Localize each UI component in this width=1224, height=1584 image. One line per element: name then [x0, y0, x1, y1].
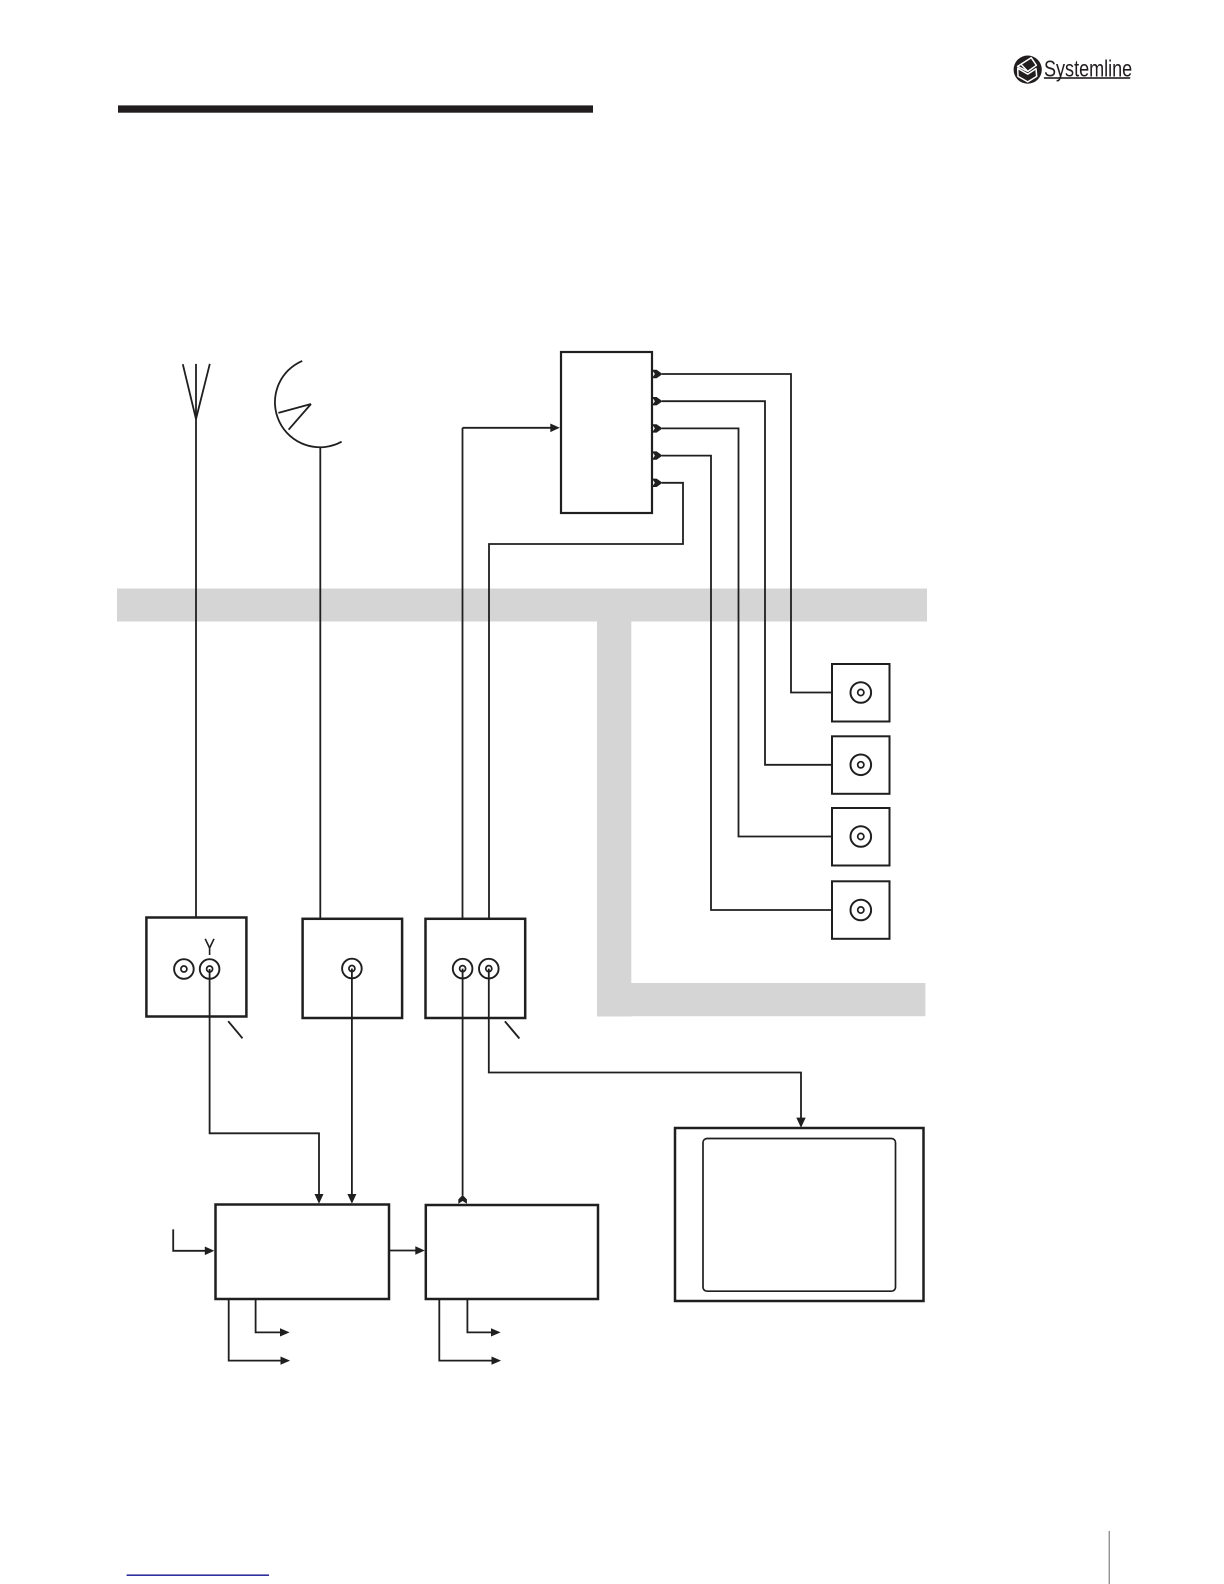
arrowhead B output lower — [492, 1357, 502, 1365]
wire plate 3 right socket to television — [489, 969, 801, 1118]
gray wall bar vertical — [597, 622, 631, 1017]
wire receiver A to receiver B — [389, 1250, 416, 1252]
tv outlet 2 — [832, 736, 890, 794]
wire receiver A output upper — [256, 1299, 281, 1332]
tv outlet 1 — [832, 664, 890, 722]
wall plate 2 — [303, 919, 403, 1018]
wire plate 3 left socket to receiver B — [462, 969, 464, 1196]
aerial glyph in wall plate 1 — [205, 939, 214, 955]
arrowhead into receiver A left — [315, 1194, 324, 1204]
wall plate 1 — [146, 918, 246, 1017]
footer page separator — [1109, 1531, 1110, 1584]
arrowhead into amplifier — [550, 424, 560, 433]
diagonal tick plate 1 — [228, 1021, 242, 1038]
wire plate 1 to receiver A — [210, 969, 319, 1195]
diagonal tick plate 3 — [505, 1021, 520, 1038]
wire return input to amplifier — [463, 428, 551, 919]
wire port 3 to outlet 3 — [662, 428, 832, 836]
wire port 2 to outlet 2 — [662, 401, 832, 765]
arrowhead A output upper — [280, 1328, 290, 1336]
wire receiver B output lower — [439, 1299, 491, 1361]
wire receiver B output upper — [467, 1299, 491, 1332]
arrowhead B output upper — [491, 1328, 501, 1336]
port 3 arrow — [652, 424, 663, 432]
aerial antenna — [183, 364, 210, 419]
arrowhead A output lower — [281, 1357, 291, 1365]
wire dish downlead — [319, 447, 321, 919]
wire input into receiver A — [173, 1229, 205, 1250]
arrowhead into television — [796, 1118, 805, 1128]
port 2 arrow — [652, 397, 663, 405]
arrowhead up at receiver B — [458, 1195, 467, 1204]
wire receiver A output lower — [229, 1299, 281, 1361]
tv outlet 3 — [832, 808, 890, 866]
Systemline logo mark — [1014, 56, 1042, 84]
television — [675, 1128, 924, 1301]
arrowhead input receiver A — [205, 1247, 215, 1256]
tv outlet 4 — [832, 881, 890, 939]
arrowhead into receiver B — [415, 1246, 425, 1255]
distribution amplifier box — [561, 352, 652, 513]
arrowhead into receiver A right — [347, 1194, 356, 1204]
port 1 arrow — [652, 370, 663, 378]
wire port 5 to wall plate 3 — [489, 483, 683, 919]
wire plate 2 to receiver A — [351, 969, 353, 1195]
wire port 4 to outlet 4 — [662, 456, 832, 910]
port 5 arrow — [652, 479, 663, 487]
wall plate 3 — [426, 919, 526, 1018]
Systemline logo text — [1044, 56, 1132, 82]
gray wall band horizontal — [117, 589, 927, 622]
wire aerial downlead — [195, 417, 197, 918]
receiver box A — [216, 1205, 390, 1300]
satellite dish — [275, 361, 342, 447]
footer link rule — [127, 1574, 269, 1576]
receiver box B — [426, 1205, 598, 1299]
title bar rule — [118, 105, 593, 112]
gray wall band bottom — [597, 983, 925, 1016]
port 4 arrow — [652, 451, 663, 459]
wire port 1 to outlet 1 — [662, 374, 832, 693]
